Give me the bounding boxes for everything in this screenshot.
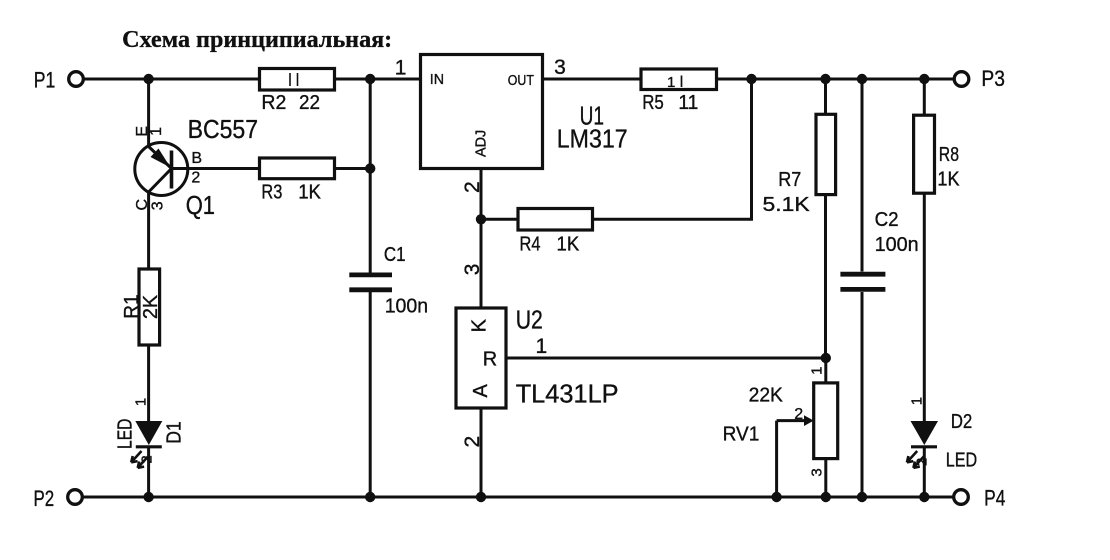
svg-text:2: 2 <box>191 170 200 187</box>
node junction C1 bottom <box>365 492 375 502</box>
wire Q1 collector to R1 <box>147 192 150 269</box>
svg-text:Q1: Q1 <box>186 190 215 220</box>
svg-text:D2: D2 <box>951 411 973 433</box>
svg-text:R4: R4 <box>520 234 541 256</box>
svg-text:2: 2 <box>794 406 803 423</box>
port P2 <box>34 486 83 511</box>
node junction R7 top <box>820 74 830 84</box>
node junction R4 feedback <box>746 74 756 84</box>
svg-text:R3: R3 <box>261 182 282 204</box>
svg-text:K: K <box>469 318 491 332</box>
svg-text:C2: C2 <box>875 209 899 231</box>
node junction RV1 wiper bottom <box>771 492 781 502</box>
svg-text:LM317: LM317 <box>557 124 628 154</box>
svg-text:ADJ: ADJ <box>473 130 489 157</box>
svg-text:TL431LP: TL431LP <box>516 378 619 408</box>
capacitor C2 <box>840 209 918 289</box>
wire node to RV1 <box>824 358 827 383</box>
svg-text:5.1K: 5.1K <box>763 194 811 216</box>
svg-text:1K: 1K <box>557 234 580 256</box>
node junction C2 bottom <box>857 492 867 502</box>
svg-text:U2: U2 <box>516 305 543 335</box>
svg-text:100n: 100n <box>875 234 919 256</box>
svg-text:1: 1 <box>667 74 675 91</box>
LED D1 <box>131 421 162 468</box>
svg-text:A: A <box>470 383 492 397</box>
node junction D1 bottom <box>143 492 153 502</box>
bottom rail wire <box>84 496 953 499</box>
node junction C1 top <box>365 74 375 84</box>
resistor R4 <box>518 209 593 256</box>
svg-text:11: 11 <box>678 92 698 114</box>
wire RV1 bottom <box>824 459 827 497</box>
svg-text:1: 1 <box>536 335 548 358</box>
svg-text:3: 3 <box>554 56 566 79</box>
wire R7 top <box>824 79 827 114</box>
wire node to R4 <box>481 218 518 221</box>
svg-text:RV1: RV1 <box>723 423 760 445</box>
wire U1 OUT to R5 <box>543 78 642 81</box>
svg-text:R2: R2 <box>261 92 286 114</box>
node junction P1/Q1 emitter <box>143 74 153 84</box>
node junction D2 bottom <box>919 492 929 502</box>
wire R8 top <box>923 79 926 115</box>
svg-text:3: 3 <box>461 264 484 276</box>
resistor R7 <box>763 114 836 216</box>
node junction RV1 bottom <box>821 492 831 502</box>
svg-text:1: 1 <box>148 127 165 136</box>
port P3 <box>954 66 1005 91</box>
svg-text:LED: LED <box>114 419 136 449</box>
port P1 <box>34 68 84 93</box>
wire C1 to bottom rail <box>369 292 372 497</box>
wire R7 bottom to node <box>824 195 827 358</box>
regulator U1 LM317 body <box>421 55 543 169</box>
wire C1 vertical top <box>369 79 372 273</box>
svg-text:100n: 100n <box>385 295 428 317</box>
node junction ADJ/R4/U2 <box>476 214 486 224</box>
svg-text:2: 2 <box>914 458 931 466</box>
svg-text:1K: 1K <box>937 169 960 191</box>
wire emitter Q1 <box>147 79 150 147</box>
resistor R3 <box>260 158 335 204</box>
LED D2 <box>907 421 938 468</box>
resistor R8 <box>914 115 960 193</box>
port P4 <box>954 486 1006 511</box>
svg-text:C1: C1 <box>384 244 406 266</box>
capacitor C1 <box>349 244 428 318</box>
wire D2 to bottom rail <box>923 448 926 497</box>
wire U2 R pin to RV1 node <box>506 357 826 360</box>
svg-text:P1: P1 <box>34 68 56 93</box>
wire R4 to feedback node <box>593 79 752 219</box>
wire R3 to C1 node <box>335 167 371 170</box>
svg-text:1K: 1K <box>298 182 321 204</box>
svg-text:R7: R7 <box>778 169 801 191</box>
wire P1 to R2 <box>85 78 260 81</box>
svg-text:R8: R8 <box>939 144 959 166</box>
svg-text:1: 1 <box>908 397 925 405</box>
svg-text:2K: 2K <box>140 294 162 319</box>
svg-text:1: 1 <box>395 56 407 79</box>
node junction R3/C1 <box>365 163 375 173</box>
svg-text:P4: P4 <box>984 486 1005 511</box>
wire R2 to U1 IN <box>335 78 421 81</box>
resistor R5 <box>641 69 717 114</box>
svg-text:OUT: OUT <box>508 73 534 89</box>
wire U1 ADJ down <box>480 169 483 220</box>
svg-text:B: B <box>191 150 202 167</box>
shunt reference U2 TL431LP body <box>456 308 506 408</box>
svg-text:P3: P3 <box>981 66 1005 91</box>
wire U2 anode to bottom rail <box>480 408 483 497</box>
wiper arrow RV1 <box>777 415 814 497</box>
wire R1 to D1 <box>147 345 150 421</box>
transistor Q1 BC557 <box>135 143 188 196</box>
svg-text:3: 3 <box>149 201 166 210</box>
svg-text:BC557: BC557 <box>188 114 258 144</box>
svg-text:P2: P2 <box>34 486 55 511</box>
node junction C2 top <box>857 74 867 84</box>
svg-text:1: 1 <box>133 398 150 406</box>
node junction U2 bottom <box>476 492 486 502</box>
node junction R7/R pin/RV1 <box>821 353 831 363</box>
node junction R8 top <box>919 74 929 84</box>
svg-text:1: 1 <box>808 367 825 375</box>
svg-text:LED: LED <box>946 449 977 471</box>
wire Q1 base to R3 <box>172 167 260 170</box>
svg-text:22K: 22K <box>749 384 784 406</box>
wire U2 cathode up <box>480 219 483 308</box>
wire D1 to bottom rail <box>147 448 150 497</box>
svg-text:2: 2 <box>461 436 484 448</box>
resistor R2 <box>260 69 335 115</box>
svg-text:R5: R5 <box>642 92 664 114</box>
potentiometer RV1 body <box>814 383 838 459</box>
wire C2 to bottom rail <box>861 292 864 497</box>
svg-text:Схема принципиальная:: Схема принципиальная: <box>122 27 392 53</box>
svg-text:R: R <box>483 349 497 371</box>
wire R5 to P3 <box>717 78 954 81</box>
svg-text:22: 22 <box>299 92 320 114</box>
wire R8 to D2 <box>923 193 926 421</box>
resistor R1 <box>121 269 162 345</box>
svg-text:3: 3 <box>808 468 825 476</box>
svg-text:IN: IN <box>430 72 444 88</box>
svg-text:D1: D1 <box>164 421 186 443</box>
wire C2 top <box>861 79 864 272</box>
svg-text:2: 2 <box>139 455 156 463</box>
